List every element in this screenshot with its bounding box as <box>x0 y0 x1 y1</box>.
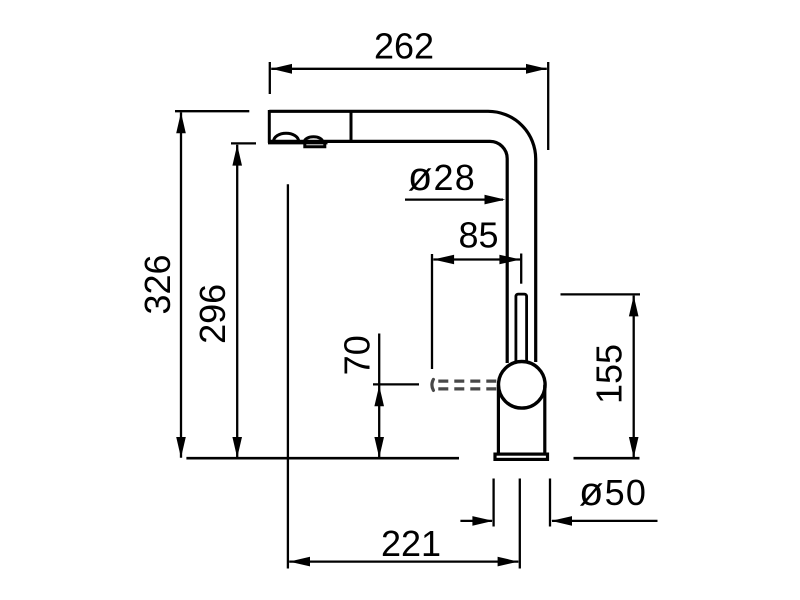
dim o28 arrow <box>485 195 506 205</box>
spray nozzle bump <box>305 137 323 142</box>
dim o50 right arrow <box>551 516 572 526</box>
spout top outline with bend <box>269 111 535 362</box>
base flange <box>495 454 548 459</box>
spout head divider <box>350 110 353 141</box>
dim 85 line <box>433 258 520 260</box>
center extension line bottom <box>519 479 521 569</box>
dim 296 down arrow <box>232 437 242 458</box>
dim 296 up arrow <box>232 145 242 166</box>
dim 155 extension line top <box>561 293 641 295</box>
ball joint circle <box>499 362 546 409</box>
dim 155 down arrow <box>629 437 639 458</box>
spout bottom outline with inner bend <box>269 141 507 363</box>
dim 262 extension line left <box>269 62 271 94</box>
spray nozzle lip <box>305 142 325 147</box>
dim 326 up arrow <box>176 112 186 133</box>
svg-text:70: 70 <box>336 335 377 375</box>
dim 85 extension line left <box>431 254 433 369</box>
spout head left edge <box>268 110 271 143</box>
dim 85 extension line right <box>520 254 522 284</box>
body left side <box>497 385 500 453</box>
dim 262 left arrow <box>271 64 292 74</box>
dim o50 extension line left <box>492 479 494 527</box>
handle slot on tube <box>516 294 527 362</box>
counter line left <box>186 457 459 460</box>
svg-text:262: 262 <box>374 25 434 66</box>
dim o50 extension line right <box>549 479 551 527</box>
dim 70 line <box>378 334 380 458</box>
hose dashed end cap <box>432 379 434 390</box>
body right side <box>543 385 546 453</box>
dim 221 line <box>289 560 518 562</box>
dim 296 extension tick <box>231 142 256 144</box>
dim 326 line <box>180 112 182 457</box>
dim 326 down arrow <box>176 437 186 458</box>
counter line right <box>574 457 640 460</box>
dim o50 left line <box>460 520 492 522</box>
dim 262 line <box>271 68 547 70</box>
svg-text:155: 155 <box>588 344 629 404</box>
spout head bottom lip <box>268 141 328 144</box>
dim o50 left arrow <box>472 516 493 526</box>
dim 70 up arrow <box>374 386 384 407</box>
svg-text:85: 85 <box>458 215 498 256</box>
dim 85 right arrow <box>499 255 520 265</box>
dim o50 right line <box>552 520 658 522</box>
svg-text:ø50: ø50 <box>579 470 647 514</box>
hose dashed line lower <box>438 387 499 390</box>
svg-text:326: 326 <box>137 254 178 314</box>
dim 262 extension line right <box>547 62 549 150</box>
dim 155 up arrow <box>629 296 639 317</box>
dim 296 line <box>236 145 238 458</box>
dim 85 left arrow <box>433 255 454 265</box>
dim 70 down arrow <box>374 437 384 458</box>
dim 155 line <box>633 296 635 458</box>
svg-text:221: 221 <box>381 523 441 564</box>
dim 70 extension tick <box>373 383 419 385</box>
aerator center extension line <box>287 184 289 568</box>
dim 262 right arrow <box>526 64 547 74</box>
svg-text:ø28: ø28 <box>408 155 476 199</box>
dim 221 left arrow <box>289 557 310 567</box>
svg-text:296: 296 <box>192 284 233 344</box>
aerator bump <box>274 133 299 141</box>
hose dashed line upper <box>438 380 499 383</box>
dim 221 right arrow <box>498 557 519 567</box>
dim o28 leader line <box>405 198 503 200</box>
dim 326 extension line top <box>175 110 249 112</box>
